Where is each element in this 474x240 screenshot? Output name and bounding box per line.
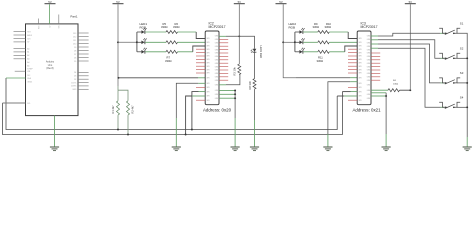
svg-text:S4: S4 <box>460 95 464 99</box>
wire IC2 VDD to 5V/LED chain <box>219 35 226 37</box>
svg-text:GPB: GPB <box>206 56 209 58</box>
ground (IC3) <box>323 146 332 148</box>
wire 5V to IC2 VDD <box>119 77 199 79</box>
svg-text:3V3: 3V3 <box>27 38 30 40</box>
svg-text:GPB: GPB <box>206 42 209 44</box>
wire LED1.3 cathode to R <box>145 51 166 53</box>
wire pullup branch <box>118 90 128 101</box>
svg-text:R8 330: R8 330 <box>248 81 252 90</box>
svg-text:GPB: GPB <box>206 73 209 75</box>
svg-text:D10: D10 <box>73 43 76 45</box>
power flag 5V (rail 5) <box>405 3 416 5</box>
svg-text:330Ω: 330Ω <box>173 25 180 29</box>
LED2 element 2 anode lead <box>295 41 300 43</box>
wire IC3 SDA to bus A <box>344 95 357 97</box>
svg-text:Address: 0x20: Address: 0x20 <box>203 108 232 113</box>
wire LED1 common feed <box>118 41 137 43</box>
wire 5V flag to Part1 <box>48 4 50 24</box>
power flag 5V (rail 4) <box>276 3 287 5</box>
svg-text:Part1: Part1 <box>70 14 78 18</box>
svg-text:SCL: SCL <box>27 103 31 105</box>
svg-text:GPB: GPB <box>358 49 361 51</box>
wire R8 to ground <box>254 89 256 120</box>
svg-text:S3: S3 <box>460 71 464 75</box>
svg-text:A4: A4 <box>27 61 29 64</box>
svg-text:A3: A3 <box>27 58 29 61</box>
svg-text:GPB: GPB <box>358 96 361 98</box>
svg-text:GPB: GPB <box>206 91 209 93</box>
svg-text:A5: A5 <box>27 64 29 67</box>
svg-text:S1: S1 <box>460 21 464 25</box>
resistor R7 330 <box>166 50 178 53</box>
wire 5V rail 4 <box>283 4 296 78</box>
wire IC3 GPA0 to S1 <box>371 35 378 37</box>
svg-text:GPB: GPB <box>206 49 209 51</box>
wire IC3 GPA1 to S2 <box>371 39 378 41</box>
LED1 chip 2 <box>141 41 144 45</box>
power flag 5V (rail 3) <box>234 3 245 5</box>
svg-text:GPB: GPB <box>358 42 361 44</box>
wire switch to rail <box>457 82 467 84</box>
LED3 power indicator <box>253 49 257 52</box>
svg-text:D1/TX: D1/TX <box>71 82 77 84</box>
svg-text:5V: 5V <box>116 0 120 4</box>
LED2 chip 2 <box>299 41 302 45</box>
svg-text:GPB: GPB <box>358 56 361 58</box>
resistor R5 330 <box>166 31 178 34</box>
svg-text:A2: A2 <box>27 54 29 57</box>
svg-text:D2: D2 <box>74 79 76 81</box>
ground (Arduino) <box>50 146 59 148</box>
svg-text:D6: D6 <box>74 57 76 59</box>
svg-text:GPB: GPB <box>358 87 361 89</box>
wire IC3 GPA2 to S3 <box>371 43 378 45</box>
svg-text:GPB: GPB <box>206 78 209 80</box>
wire R1 to bus A <box>117 115 119 129</box>
wire R10 to IC3 GPB1 <box>329 41 357 43</box>
pushbutton S4 <box>439 102 445 107</box>
svg-text:S2: S2 <box>460 46 464 50</box>
svg-text:GPB: GPB <box>206 66 209 68</box>
power flag 5V (Arduino) <box>45 3 56 5</box>
svg-text:GPB: GPB <box>358 63 361 65</box>
wire R2 to bus B <box>127 115 129 134</box>
LED1 element 3 (RGB LED anode lead) <box>137 51 142 53</box>
svg-text:10kΩ: 10kΩ <box>393 84 399 86</box>
svg-text:GPB: GPB <box>206 63 209 65</box>
LED1 chip 1 <box>141 30 144 34</box>
wire bus SDA (bottom bus A) <box>6 78 337 130</box>
svg-text:D5: D5 <box>74 61 76 63</box>
svg-text:GPB: GPB <box>206 96 209 98</box>
power flag 5V (rail 2) <box>113 3 124 5</box>
svg-text:D9: D9 <box>74 47 76 49</box>
svg-text:5V: 5V <box>238 0 242 4</box>
svg-text:RGB: RGB <box>289 26 296 30</box>
wire IC3 SCL to bus B <box>351 91 358 93</box>
Part1 left pin stubs <box>14 31 26 33</box>
wire Part1 SCL pin to bus B <box>3 102 26 104</box>
svg-text:LED3 RED: LED3 RED <box>259 46 263 59</box>
wire Part1 SDA pin to bus A <box>6 77 26 79</box>
wire Part1 GND to ground <box>54 116 56 147</box>
LED2 chip 1 <box>299 30 302 34</box>
wire IC3 A0 to R4 <box>371 89 388 91</box>
svg-text:330Ω: 330Ω <box>317 59 324 63</box>
svg-text:5V: 5V <box>409 0 413 4</box>
wire IC2 SCL to bus A <box>199 91 206 93</box>
svg-text:(Rev3): (Rev3) <box>46 67 53 70</box>
wire LED3 to R8 <box>254 52 256 78</box>
svg-text:D11: D11 <box>73 40 76 42</box>
svg-text:GPB: GPB <box>206 87 209 89</box>
svg-text:GPB: GPB <box>358 100 361 102</box>
wire R9 to IC3 GPB0 <box>329 31 348 33</box>
svg-text:IOREF: IOREF <box>27 69 33 71</box>
svg-text:GPB: GPB <box>358 66 361 68</box>
wire R11 to IC3 GPB2 <box>329 51 345 53</box>
pushbutton S2 <box>439 53 445 58</box>
IC3 left unconnected pins <box>348 48 357 50</box>
pushbutton S1 <box>439 28 445 33</box>
svg-text:GPB: GPB <box>206 59 209 61</box>
LED2 element 1 anode lead <box>295 31 300 33</box>
wire 5V rail 5 <box>409 4 411 90</box>
svg-text:GPB: GPB <box>358 83 361 85</box>
IC2 left unconnected pins <box>196 48 205 50</box>
wire R6 to IC2 GPB1 <box>178 41 206 43</box>
IC3 right unconnected pins <box>371 52 380 54</box>
svg-text:GPB: GPB <box>358 78 361 80</box>
wire switch common rail to ground <box>457 33 467 137</box>
IC2 right unconnected pins <box>219 38 228 40</box>
svg-text:GPB: GPB <box>206 38 209 40</box>
resistor R10 330 <box>318 41 330 44</box>
svg-text:GPB: GPB <box>206 100 209 102</box>
resistor R6 330 <box>166 41 178 44</box>
wire LED2.1 cathode to R <box>303 31 318 33</box>
svg-text:GPB: GPB <box>206 83 209 85</box>
svg-text:GPB: GPB <box>358 46 361 48</box>
svg-text:330Ω: 330Ω <box>161 25 168 29</box>
resistor R2 pullup <box>127 101 130 115</box>
junction rail4-LED2 <box>282 41 284 43</box>
svg-text:GPB: GPB <box>358 91 361 93</box>
pushbutton S3 <box>439 78 445 83</box>
wire LED2.3 cathode to R <box>303 51 318 53</box>
wire R3 to IC2 reset pin <box>226 75 240 85</box>
wire LED1 common rail <box>136 32 138 52</box>
wire IC3 GND to ground rail <box>350 81 357 83</box>
LED2 chip 3 <box>299 50 302 54</box>
wire LED2 common rail <box>294 32 296 52</box>
svg-text:RGB: RGB <box>140 26 147 30</box>
svg-text:GND: GND <box>72 89 77 91</box>
wire LED2 common feed <box>283 41 295 43</box>
wire 5V rail 2 <box>117 4 119 86</box>
svg-text:A0: A0 <box>27 47 29 50</box>
resistor R11 330 <box>318 50 330 53</box>
IC IC3 body <box>357 31 371 105</box>
svg-text:GPB: GPB <box>206 46 209 48</box>
svg-text:D0/RX: D0/RX <box>71 86 77 88</box>
wire switch to rail <box>457 57 467 59</box>
wire R4 to 5V rail <box>400 89 411 91</box>
svg-text:330Ω: 330Ω <box>165 59 172 63</box>
wire 5V rail 3 <box>238 4 240 64</box>
LED2 element 3 anode lead <box>295 51 300 53</box>
svg-text:D7: D7 <box>74 54 76 56</box>
wire LED1.1 cathode to R <box>145 31 166 33</box>
wire IC3 address pins to ground rail <box>371 92 379 94</box>
ground (switches) <box>463 146 472 148</box>
junction VDD-rail3 <box>238 35 240 37</box>
svg-text:MCP23017: MCP23017 <box>361 25 378 29</box>
ground (IC3 address) <box>382 146 391 148</box>
svg-text:R2 4k7: R2 4k7 <box>131 105 135 114</box>
svg-text:D13: D13 <box>73 33 76 35</box>
resistor R3 reset pullup <box>238 64 241 75</box>
wire LED2.2 cathode to R <box>303 41 318 43</box>
resistor R4 10k <box>388 89 400 92</box>
svg-text:GPB: GPB <box>358 59 361 61</box>
svg-text:MCP23017: MCP23017 <box>209 25 226 29</box>
svg-text:A1: A1 <box>27 51 29 54</box>
svg-text:D8: D8 <box>74 50 76 52</box>
junction rail2-LED1 <box>117 41 119 43</box>
ground (LED3) <box>250 146 259 148</box>
wire R5 to IC2 GPB0 <box>178 31 197 33</box>
wire IC2 SDA to bus B <box>192 95 205 97</box>
Part1 top pin stubs <box>38 19 40 24</box>
svg-text:GPB: GPB <box>206 69 209 71</box>
resistor R8 330 <box>253 79 256 90</box>
LED1 element 1 (RGB LED anode lead) <box>137 31 142 33</box>
svg-text:GPB: GPB <box>358 73 361 75</box>
IC IC2 body <box>205 31 219 105</box>
svg-text:330Ω: 330Ω <box>325 25 332 29</box>
ground (IC2) <box>172 146 181 148</box>
wire R7 to IC2 GPB2 <box>178 51 193 53</box>
wire 5V to IC3 VDD <box>296 77 350 79</box>
wire LED1.2 cathode to R <box>145 41 166 43</box>
svg-text:GPB: GPB <box>206 52 209 54</box>
svg-text:5V: 5V <box>279 0 283 4</box>
wire IC2 address pins to ground rail <box>219 90 228 92</box>
LED1 chip 3 <box>141 50 144 54</box>
svg-text:GPB: GPB <box>358 38 361 40</box>
svg-text:R3 10k: R3 10k <box>233 67 237 76</box>
wire IC3 GPA3 to S4 <box>371 47 378 49</box>
wire bus SCL (bottom bus B) <box>3 92 343 135</box>
svg-text:D3: D3 <box>74 76 76 78</box>
resistor R9 330 <box>318 31 330 34</box>
junction rail2-IC2 VDD wire <box>118 77 120 79</box>
wire switch to rail <box>457 106 467 108</box>
ground (IC2 address) <box>231 146 240 148</box>
svg-text:GPB: GPB <box>358 69 361 71</box>
resistor R1 pullup <box>117 101 120 115</box>
microcontroller Part1 (Arduino) body <box>26 24 79 116</box>
svg-text:GPB: GPB <box>358 52 361 54</box>
svg-text:R1 4k7: R1 4k7 <box>111 105 115 114</box>
svg-text:D12: D12 <box>73 36 76 38</box>
svg-text:5V: 5V <box>48 0 52 4</box>
LED1 element 2 (RGB LED anode lead) <box>137 41 142 43</box>
Part1 right pin stubs <box>78 32 89 34</box>
svg-text:Address: 0x21: Address: 0x21 <box>353 108 382 113</box>
svg-text:D4: D4 <box>74 72 76 74</box>
svg-text:GND2: GND2 <box>27 82 32 84</box>
wire IC2 GND to ground rail <box>198 82 205 84</box>
svg-text:330Ω: 330Ω <box>313 25 320 29</box>
